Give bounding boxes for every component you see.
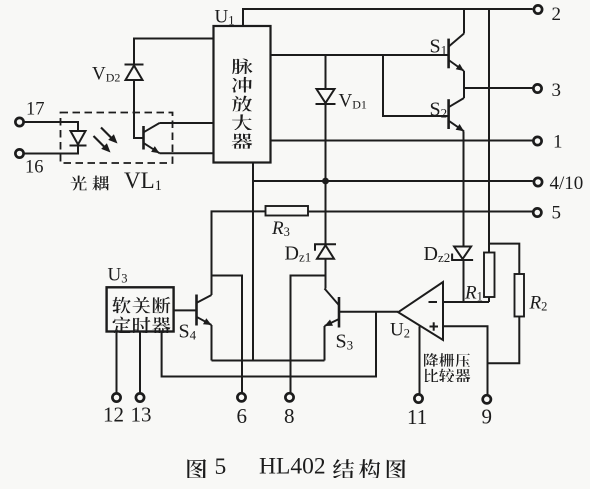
op-amp U1 pulse amplifier box — [214, 26, 271, 163]
terminal 5 — [533, 208, 541, 216]
zener Dz2 — [452, 247, 473, 261]
caption 图 — [187, 459, 206, 478]
wire U3 pin to terminal 13 — [139, 332, 141, 393]
resistor R2 — [515, 274, 525, 317]
terminal 13 — [136, 393, 144, 401]
wire branch down to S2 base — [383, 55, 449, 116]
wire S3 emitter down to rail — [324, 326, 326, 361]
wire collector node to pin8 drop — [291, 276, 326, 393]
svg-text:3: 3 — [552, 80, 562, 101]
caption 结构图 — [333, 459, 405, 478]
transistor S1 — [449, 34, 464, 72]
wire U3 pin to terminal 12 — [116, 332, 118, 393]
wire VD1 cathode down to Dz1 — [325, 105, 327, 245]
terminal 9 — [483, 395, 491, 403]
transistor S2 — [449, 98, 464, 131]
U3 text row2 定时器 — [113, 317, 171, 333]
wire Dz1 to S3 collector node — [325, 259, 327, 289]
terminal 16 — [15, 149, 23, 157]
svg-text:17: 17 — [26, 100, 45, 120]
wire S1 emitter to S2 collector — [463, 71, 465, 98]
wire R2 bottom lead to pin9 line — [488, 317, 520, 364]
U3 text row1 软关断 — [112, 297, 170, 313]
transistor S4 — [197, 295, 212, 326]
opto phototransistor — [144, 123, 160, 153]
terminal 3 — [533, 84, 541, 92]
opto LED — [70, 131, 87, 146]
wire VD1 anode from base wire — [325, 55, 327, 89]
U2 text row2 比较器 — [425, 368, 471, 381]
wire U3 bottom rail to U2 output node — [162, 312, 376, 376]
resistor R1 — [484, 253, 495, 298]
wire Dz2 to minus wire — [463, 260, 465, 302]
wire U1 right to S1 base — [271, 54, 449, 56]
transistor S3 — [325, 289, 340, 328]
wire node to terminal 3 — [464, 87, 533, 89]
svg-text:11: 11 — [407, 405, 427, 429]
svg-text:HL402: HL402 — [259, 454, 326, 480]
svg-text:12: 12 — [103, 403, 124, 427]
wire top rail from U1 top to terminal 2 — [243, 9, 533, 26]
wire emitter rail — [212, 360, 325, 362]
U2 plus input sign — [430, 322, 439, 330]
terminal 12 — [112, 393, 120, 401]
svg-text:4/10: 4/10 — [550, 173, 584, 194]
U2 text row1 降栅压 — [424, 353, 470, 366]
wire line 1 from U1 to terminal 1 — [271, 140, 533, 142]
svg-text:6: 6 — [237, 404, 248, 428]
wire R1 bottom lead — [488, 297, 490, 302]
label 光耦 — [71, 176, 109, 191]
timer U3 soft turn-off box — [107, 287, 174, 331]
wire line 4/10 — [253, 180, 533, 182]
svg-text:1: 1 — [553, 132, 563, 153]
wire pin16 to LED cathode — [25, 146, 79, 154]
wire line 5 to R3 and corner down to S4 collector — [212, 211, 266, 295]
terminal 2 — [534, 5, 542, 13]
terminal 8 — [285, 393, 293, 401]
wire opto emitter to U1 — [160, 152, 214, 154]
wire U1 left to VD2 top — [134, 39, 214, 66]
wire pin17 to LED anode — [25, 122, 79, 131]
wire R1 from top rail — [488, 9, 490, 253]
wire rail to S1 collector — [463, 9, 465, 34]
svg-text:5: 5 — [552, 203, 562, 224]
svg-text:9: 9 — [482, 405, 493, 429]
wire VD2 bottom to opto base — [134, 80, 144, 138]
svg-text:5: 5 — [215, 454, 227, 480]
terminal 11 — [414, 394, 422, 402]
optocoupler VL1 dashed box — [61, 113, 173, 164]
wire plus input to terminal 9 — [443, 326, 488, 394]
svg-text:8: 8 — [284, 404, 295, 428]
junction node on 4/10 line — [322, 178, 329, 185]
wire opto collector to U1 — [160, 122, 214, 124]
wire R2 top lead to R1 line — [489, 244, 519, 274]
terminal 17 — [15, 118, 23, 126]
wire minus input to R1 bottom — [443, 301, 489, 303]
svg-text:2: 2 — [552, 4, 562, 25]
U1 text 脉冲放大器 — [232, 59, 253, 149]
wire U2 output to S3 base — [339, 311, 398, 313]
terminal 1 — [533, 137, 541, 145]
diode VD1 — [316, 89, 336, 104]
wire S4 collector branch to pin6 drop — [212, 276, 243, 393]
opto light arrows — [94, 128, 118, 153]
wire U3 output to S4 base — [174, 309, 197, 311]
svg-text:16: 16 — [25, 158, 44, 178]
wire S2 emitter down to Dz2 — [463, 131, 465, 246]
wire terminal 11 stub — [419, 326, 421, 393]
wire U1 bottom pin down to emitter rail — [252, 163, 254, 361]
zener Dz1 — [315, 244, 336, 259]
diode VD2 — [125, 65, 144, 81]
op-amp U2 comparator triangle — [398, 282, 443, 340]
wire line 5 left segment — [308, 211, 533, 213]
wire S4 emitter down to rail — [211, 325, 213, 361]
svg-text:13: 13 — [131, 403, 152, 427]
terminal 6 — [237, 393, 245, 401]
terminal 4/10 — [534, 178, 542, 186]
U2 minus input sign — [429, 301, 438, 303]
resistor R3 — [266, 206, 309, 216]
